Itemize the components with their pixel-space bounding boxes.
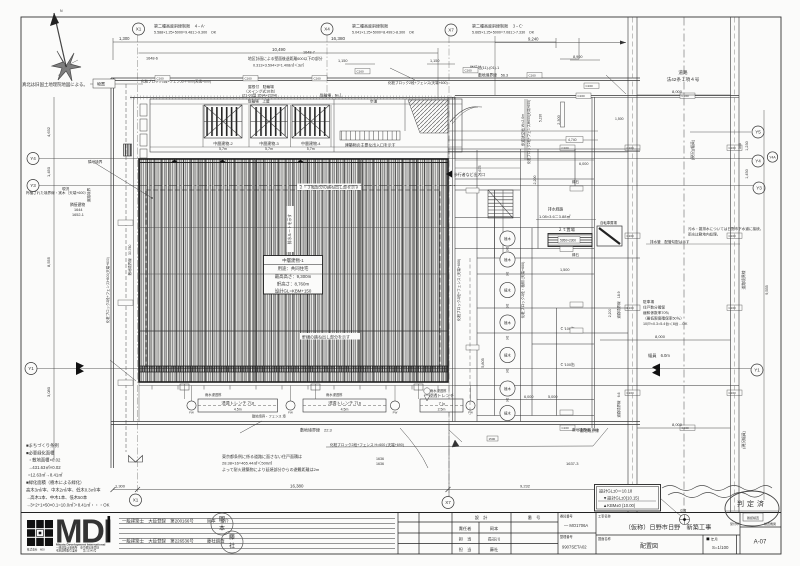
svg-text:排水ルートを示す: 排水ルートを示す (287, 214, 292, 245)
road dim bottom (637, 427, 731, 429)
svg-text:1,150: 1,150 (338, 59, 348, 63)
main building 1 outline and hatch (139, 159, 448, 382)
svg-text:雨水浸透桝: 雨水浸透桝 (205, 392, 222, 397)
stream wavy lines (662, 486, 772, 498)
svg-text:植木: 植木 (504, 411, 511, 416)
grid line Y1 (37, 368, 751, 370)
svg-text:→3+2+1×50×0.1=10.0㎡＞8.41㎡・・・OK: →3+2+1×50×0.1=10.0㎡＞8.41㎡・・・OK (26, 502, 110, 508)
svg-text:道路境界線 18.9: 道路境界線 18.9 (616, 291, 621, 318)
svg-text:植木: 植木 (504, 236, 511, 241)
svg-text:縁石: 縁石 (572, 252, 580, 257)
svg-text:道路境界線: 道路境界線 (741, 270, 746, 289)
entrance steps ladder (340, 131, 400, 140)
svg-text:C160: C160 (729, 234, 737, 238)
svg-text:歩道: 歩道 (370, 99, 378, 104)
svg-text:敷地境界線: 敷地境界線 (580, 428, 599, 433)
svg-text:第二種高度斜線制限 ４−Ａ’: 第二種高度斜線制限 ４−Ａ’ (154, 23, 205, 29)
svg-text:用途：共同住宅: 用途：共同住宅 (278, 265, 309, 272)
svg-text:化粧ブロック2段+フェンスH600(天端+600): 化粧ブロック2段+フェンスH600(天端+600) (526, 100, 531, 164)
trench manhole circles (187, 401, 196, 415)
svg-text:▼設計GL±0(10.15): ▼設計GL±0(10.15) (603, 495, 640, 502)
svg-text:4,740: 4,740 (568, 138, 577, 142)
benchmark leader (660, 498, 681, 516)
svg-text:中層建物-2: 中層建物-2 (213, 140, 233, 146)
grid line X7 over court (448, 97, 450, 424)
svg-text:藤社: 藤社 (490, 546, 498, 553)
svg-text:4,632: 4,632 (46, 126, 51, 137)
svg-text:(現況)(幅員): (現況)(幅員) (690, 139, 695, 160)
south site boundary double line (111, 422, 640, 425)
grid line Y5 (right) (690, 131, 751, 133)
svg-text:縁石: 縁石 (572, 179, 580, 184)
title table grid (398, 513, 781, 555)
svg-text:２・３階部分の跳ね出し部を示す: ２・３階部分の跳ね出し部を示す (299, 184, 359, 190)
svg-text:■必要緑化面積: ■必要緑化面積 (26, 450, 55, 457)
svg-text:植木: 植木 (504, 320, 511, 325)
svg-text:委託番号: 委託番号 (560, 514, 573, 519)
svg-text:4,675: 4,675 (478, 166, 482, 175)
matchline flag right (652, 364, 660, 377)
svg-text:化粧ブロック2段・植栩 (天端+600): 化粧ブロック2段・植栩 (天端+600) (520, 262, 525, 319)
svg-text:（最低限度確保率50％）: （最低限度確保率50％） (643, 316, 684, 321)
svg-text:1648-7: 1648-7 (303, 51, 315, 55)
car turning arc (450, 107, 478, 122)
road centerline (683, 18, 685, 513)
svg-text:（仮称）日野市日野 新築工事: （仮称）日野市日野 新築工事 (625, 524, 712, 532)
svg-text:敵地境界・フェンス 境: 敵地境界・フェンス 境 (252, 414, 287, 419)
hedge line with ticks (north) (130, 97, 455, 99)
svg-text:6,000: 6,000 (579, 162, 589, 166)
svg-text:S=1/100: S=1/100 (712, 545, 729, 550)
svg-text:駐輪場 №１: 駐輪場 №１ (320, 93, 342, 98)
bicycle parking enclosure (150, 99, 462, 152)
svg-text:道路境界線 6.6: 道路境界線 6.6 (616, 392, 621, 417)
right court room dims (481, 115, 589, 399)
north-east boundary segment (455, 95, 739, 97)
title table header texts (459, 514, 541, 553)
svg-text:500: 500 (738, 143, 742, 149)
planter boxes west edge (140, 104, 147, 158)
svg-text:5,7m: 5,7m (219, 147, 227, 151)
svg-text:中層建物-1: 中層建物-1 (282, 257, 304, 264)
north-east boundary corner details (390, 38, 626, 94)
road west edge lines (628, 18, 637, 513)
svg-text:第二種高度斜線制限 ３−Ｃ’: 第二種高度斜線制限 ３−Ｃ’ (472, 23, 523, 29)
svg-text:確認検査: 確認検査 (747, 515, 759, 520)
svg-text:屋根付 駐輪場: 屋根付 駐輪場 (248, 84, 274, 89)
svg-text:岡: 岡 (219, 516, 225, 523)
svg-text:X7: X7 (448, 28, 454, 33)
svg-text:社: 社 (229, 542, 235, 550)
entrance slope hatch (408, 100, 448, 133)
svg-text:東京都条例に係る道路に面さない住戸面積は: 東京都条例に係る道路に面さない住戸面積は (222, 453, 302, 459)
storage shed box (93, 79, 115, 88)
upper cantilever dashed outline (146, 190, 440, 367)
left vertical dimension line (53, 97, 55, 460)
matchline flag left (76, 362, 84, 375)
svg-text:5,7m: 5,7m (307, 147, 315, 151)
grid bubble X7 bottom (442, 497, 454, 509)
svg-text:化粧ブロック2段+フェンスH=600(天端+600): 化粧ブロック2段+フェンスH=600(天端+600) (141, 79, 211, 84)
svg-text:8,000: 8,000 (672, 422, 683, 427)
road width dim top (637, 94, 731, 96)
building main label box (264, 256, 323, 295)
svg-text:敷地境界線 30.780: 敷地境界線 30.780 (127, 245, 132, 276)
svg-text:→431.63㎡×0.02: →431.63㎡×0.02 (28, 464, 61, 470)
svg-text:8,000: 8,000 (655, 334, 666, 339)
svg-text:第二種高度斜線制限: 第二種高度斜線制限 (352, 23, 388, 29)
east court horizontal walls (448, 149, 739, 416)
svg-text:1500: 1500 (489, 437, 496, 441)
svg-text:幅員 6.0m: 幅員 6.0m (648, 352, 670, 359)
svg-text:10,490: 10,490 (272, 47, 286, 52)
svg-text:本: 本 (219, 524, 225, 532)
svg-text:C160: C160 (586, 84, 594, 88)
svg-text:排水経路: 排水経路 (548, 207, 563, 212)
road width dim middle (600, 339, 731, 341)
dashed court divider (469, 258, 471, 415)
benchmark datum box (595, 485, 661, 512)
svg-text:3,080: 3,080 (46, 386, 51, 397)
svg-text:住戸数分確保: 住戸数分確保 (643, 305, 665, 310)
grid bubble Y4 left (27, 153, 39, 165)
svg-text:A-07: A-07 (754, 540, 767, 546)
svg-text:真北は旧国土地理院地図による。: 真北は旧国土地理院地図による。 (22, 81, 88, 88)
outdoor stair (488, 190, 513, 218)
svg-text:責任者: 責任者 (459, 525, 472, 532)
svg-text:2,200: 2,200 (608, 309, 612, 318)
leader lines lower-left (110, 360, 262, 433)
svg-text:1,500: 1,500 (615, 117, 624, 121)
boundary tag boxes (118, 68, 742, 491)
right margin vertical dim line (763, 110, 765, 500)
grid line X4 (326, 35, 328, 97)
svg-text:化粧ブロック2段+フェンス (天端+600): 化粧ブロック2段+フェンス (天端+600) (456, 259, 461, 321)
svg-text:駐輪場 上屋: 駐輪場 上屋 (248, 99, 270, 104)
svg-text:5.588×1.25+5000=9.481＞9.300 OK: 5.588×1.25+5000=9.481＞9.300 OK (154, 31, 217, 35)
svg-text:長谷川: 長谷川 (488, 536, 501, 543)
svg-text:8,555: 8,555 (46, 256, 51, 267)
grid bubble X1 top (133, 23, 145, 35)
svg-text:植木: 植木 (504, 288, 511, 293)
svg-text:X7: X7 (445, 500, 451, 505)
svg-text:判定済: 判定済 (737, 499, 767, 508)
svg-text:1636: 1636 (376, 462, 384, 466)
svg-text:― MO1706A: ― MO1706A (564, 523, 588, 528)
svg-text:軒樋の跳ね出し部分を示す: 軒樋の跳ね出し部分を示す (302, 334, 350, 340)
bicycle rack bay 2 (204, 105, 242, 138)
grid bubble Y3 right (753, 182, 765, 194)
bay separator lines (203, 105, 331, 147)
west parallel offset line (125, 84, 127, 452)
svg-text:1,450: 1,450 (745, 169, 749, 179)
svg-text:C160: C160 (578, 94, 586, 98)
svg-text:C160: C160 (157, 77, 165, 81)
hanko stamp 1 (211, 513, 233, 535)
svg-text:C160: C160 (627, 391, 635, 395)
downpipe small boxes between building and trench (180, 384, 423, 390)
svg-text:2,200: 2,200 (533, 176, 537, 185)
vent marks on top edge (171, 160, 178, 163)
svg-text:受付印: 受付印 (730, 521, 739, 526)
sub-base line below building (139, 385, 455, 387)
svg-text:隣接建物: 隣接建物 (70, 202, 85, 207)
road label (667, 69, 700, 83)
MDI logo checker (27, 520, 53, 546)
svg-text:1.08×3.6＝3.88㎡: 1.08×3.6＝3.88㎡ (539, 213, 570, 219)
svg-text:5,000: 5,000 (548, 395, 558, 399)
eaves note on hatch (300, 333, 360, 340)
title block top line (21, 512, 781, 514)
svg-text:年月: 年月 (711, 537, 718, 542)
svg-text:設計GL=KBM+150: 設計GL=KBM+150 (275, 288, 312, 295)
svg-text:配置図: 配置図 (640, 543, 658, 550)
svg-text:9,555: 9,555 (765, 285, 769, 295)
svg-text:浸透トレンチ.7㏑: 浸透トレンチ.7㏑ (328, 400, 361, 407)
svg-text:植木: 植木 (504, 353, 511, 358)
road east edge lines (731, 18, 740, 513)
svg-text:番 号: 番 号 (528, 514, 541, 521)
infiltration trench box 3 (420, 392, 463, 412)
svg-text:担 当: 担 当 (459, 536, 472, 543)
svg-text:化粧ブロック2段+フェンスH600(天端+600): 化粧ブロック2段+フェンスH600(天端+600) (105, 257, 110, 323)
grid bubble Y3 left (27, 180, 39, 192)
svg-text:4.5m: 4.5m (234, 408, 242, 412)
svg-text:FW: FW (288, 411, 293, 415)
svg-text:軒高さ：8,760m: 軒高さ：8,760m (277, 281, 310, 288)
west site boundary double line (111, 78, 114, 468)
grid bubble X1 bottom (130, 494, 142, 506)
fire code note (222, 453, 320, 472)
svg-text:=12.63㎡→8.41㎡: =12.63㎡→8.41㎡ (28, 472, 63, 478)
svg-text:FW: FW (189, 411, 194, 415)
grid line X7 (448, 36, 450, 496)
svg-text:よって耐火建築物により延焼部分からの避難距離は2m: よって耐火建築物により延焼部分からの避難距離は2m (222, 466, 320, 472)
tree planting circles column (500, 231, 515, 246)
svg-text:0.313×3.594×3=1.408㎡＜3㎡: 0.313×3.594×3=1.408㎡＜3㎡ (253, 63, 304, 68)
svg-text:一級建築士 大臣登録 第226536号 藤社調査: 一級建築士 大臣登録 第226536号 藤社調査 (122, 538, 225, 545)
svg-text:16,380: 16,380 (290, 484, 304, 489)
small shrub labels between trees (506, 246, 510, 402)
grid line Y1 over hatch (139, 368, 448, 370)
svg-text:(21-03型 3594×2204): (21-03型 3594×2204) (242, 93, 277, 98)
svg-text:1644: 1644 (74, 208, 82, 212)
svg-text:(現況幅員): (現況幅員) (741, 430, 746, 448)
building bottom dark band (139, 366, 448, 372)
machizukuri ordinance notes (26, 442, 110, 508)
garbage yard hatched box (548, 234, 592, 247)
svg-text:排水管 配管勾配は示す: 排水管 配管勾配は示す (650, 239, 690, 244)
svg-text:C160: C160 (682, 94, 690, 98)
grid bubble Y5 right (752, 126, 764, 138)
svg-text:Y4A: Y4A (769, 156, 776, 160)
svg-text:建築物の主要な出入口を示す: 建築物の主要な出入口を示す (345, 143, 396, 148)
svg-text:浸透トレンチ: 浸透トレンチ (429, 392, 454, 399)
svg-text:藤: 藤 (229, 533, 235, 541)
right vertical dims rotated (690, 139, 769, 449)
parking calc note (643, 299, 688, 326)
svg-text:株式会社 MDI: 株式会社 MDI (27, 548, 45, 552)
svg-text:C160: C160 (627, 234, 635, 238)
svg-text:法42条１項４号: 法42条１項４号 (667, 76, 700, 83)
svg-text:4.5m: 4.5m (341, 408, 349, 412)
svg-text:C160: C160 (729, 146, 737, 150)
approach lines (334, 97, 455, 159)
infiltration trench box 1 (198, 399, 278, 412)
svg-text:5.665×1.25+5000=7.081＞7.330 OK: 5.665×1.25+5000=7.081＞7.330 OK (472, 31, 535, 35)
approval ellipse stamp (725, 491, 779, 526)
canopy bike shed note box (242, 84, 342, 98)
svg-text:化粧ブロック2段+フェンス H=600 (天端+690): 化粧ブロック2段+フェンス H=600 (天端+690) (330, 442, 404, 447)
svg-text:FW: FW (468, 411, 473, 415)
upper court narrow box (561, 102, 565, 127)
svg-text:道路: 道路 (678, 69, 688, 76)
floor line across hatch 3 (139, 330, 448, 332)
svg-text:高木3㎡/本、中木2㎡/本、低木0.3㎡/本: 高木3㎡/本、中木2㎡/本、低木0.3㎡/本 (26, 487, 101, 494)
svg-text:植木: 植木 (504, 257, 511, 262)
grid line X1 (137, 35, 139, 494)
svg-text:FW: FW (393, 411, 398, 415)
svg-text:1648-6: 1648-6 (146, 57, 158, 61)
svg-text:Ｃ’100缶: Ｃ’100缶 (560, 362, 575, 367)
svg-text:→高木1本、中木1本、低木50本: →高木1本、中木1本、低木50本 (26, 494, 88, 501)
water meter circles lower (424, 388, 430, 401)
svg-text:5,190: 5,190 (539, 114, 543, 122)
road west edge dashed companion (632, 18, 634, 513)
svg-text:検査機関: 検査機関 (764, 521, 776, 526)
svg-text:C160: C160 (245, 77, 253, 81)
svg-text:■まちづくり条例: ■まちづくり条例 (26, 442, 59, 449)
svg-text:駐車場: 駐車場 (643, 299, 654, 304)
small boxed tags right court (466, 186, 583, 415)
corridor double lines (495, 190, 504, 258)
grid line Y4 (39, 158, 752, 160)
svg-text:X4: X4 (324, 27, 330, 32)
svg-text:Y1: Y1 (754, 368, 760, 373)
svg-text:浸透トレンチ.7㏑: 浸透トレンチ.7㏑ (221, 400, 254, 407)
top dimension row 10,490 (139, 52, 439, 54)
floor line across hatch 2 (139, 273, 448, 275)
bike box with diagonal (597, 220, 622, 246)
svg-text:枵植された境界線・実木（天端+600）: 枵植された境界線・実木（天端+600） (26, 190, 88, 195)
svg-text:敷地境界線 22.3: 敷地境界線 22.3 (300, 427, 333, 433)
svg-text:2.5m: 2.5m (438, 408, 446, 412)
scale cell (707, 538, 710, 541)
svg-text:雨水浸透桝: 雨水浸透桝 (430, 388, 447, 393)
svg-text:植木: 植木 (504, 386, 511, 391)
bowtie survey marker (129, 456, 143, 463)
bicycle rack bay 4 (292, 105, 330, 138)
north compass arrow (50, 9, 81, 81)
court upper horizontal ticks (455, 160, 594, 168)
svg-text:1,300: 1,300 (119, 36, 130, 41)
svg-text:6,000: 6,000 (524, 395, 534, 399)
svg-text:２ｔ置場: ２ｔ置場 (558, 226, 576, 233)
svg-text:C160: C160 (627, 146, 635, 150)
svg-text:化粧ブロック2段+フェンス(天端+600): 化粧ブロック2段+フェンス(天端+600) (388, 80, 448, 85)
bottom dimension 9,232 (448, 489, 598, 491)
svg-text:歩道状空地 W=2.0m: 歩道状空地 W=2.0m (520, 114, 525, 146)
svg-text:担 当: 担 当 (459, 546, 472, 553)
grid bubble Y4 right (752, 155, 764, 167)
grid bubble Y1 left (25, 363, 37, 375)
fence post ticks south of building (152, 386, 438, 390)
svg-text:C160: C160 (729, 306, 737, 310)
svg-text:1637-3: 1637-3 (566, 461, 579, 466)
svg-text:Y1: Y1 (28, 366, 34, 371)
svg-text:敷地境界線 56.3: 敷地境界線 56.3 (478, 73, 508, 78)
svg-text:雨水は敷地内処理。: 雨水は敷地内処理。 (688, 232, 720, 237)
top dimension row 16,380 (113, 38, 556, 60)
svg-text:X1: X1 (136, 27, 142, 32)
svg-text:C160: C160 (465, 69, 473, 73)
signature rule lines (119, 519, 395, 549)
svg-text:Y4: Y4 (30, 156, 36, 161)
rotated drainage route label (287, 206, 294, 252)
east court vertical walls (453, 97, 595, 428)
svg-text:・敷地面積×0.02: ・敷地面積×0.02 (28, 457, 61, 464)
grid bubble Y4A right (767, 152, 777, 162)
grid line Y3 over hatch (139, 185, 455, 187)
svg-text:9907SETA02: 9907SETA02 (562, 545, 587, 550)
svg-text:Y3: Y3 (756, 186, 762, 191)
upper court dim lines (448, 130, 598, 132)
svg-text:5,805: 5,805 (481, 358, 485, 368)
svg-text:７㏑: ７㏑ (438, 401, 446, 406)
svg-text:▲KBM±0 (10.00): ▲KBM±0 (10.00) (603, 503, 636, 508)
bottom dimension 16,380 (138, 489, 449, 491)
svg-text:図面名称: 図面名称 (598, 536, 612, 541)
svg-text:1,450: 1,450 (46, 166, 51, 177)
svg-text:自転車置場: 自転車置場 (600, 220, 618, 225)
svg-text:物置: 物置 (97, 81, 105, 87)
floor line across hatch 1 (139, 227, 448, 229)
svg-text:設計GL±0＝10.18: 設計GL±0＝10.18 (599, 488, 633, 495)
svg-text:C160: C160 (562, 146, 570, 150)
svg-text:5.041×1.25+5000=8.499＞8.300 OK: 5.041×1.25+5000=8.499＞8.300 OK (352, 31, 415, 35)
svg-text:Y3: Y3 (30, 183, 36, 188)
top dimension row 9,240 (495, 42, 626, 44)
svg-text:5950×2300: 5950×2300 (560, 239, 576, 243)
svg-text:汚水・雑排水については日野市下水道に接続。: 汚水・雑排水については日野市下水道に接続。 (688, 226, 763, 231)
svg-text:5,7m: 5,7m (265, 147, 273, 151)
grid bubble Y1 right (751, 364, 763, 376)
svg-text:8,000: 8,000 (672, 89, 683, 94)
svg-text:地区計画による壁面後退距離600以下の部分: 地区計画による壁面後退距離600以下の部分 (248, 56, 323, 61)
svg-text:岡本: 岡本 (490, 525, 499, 532)
svg-text:1652-1: 1652-1 (72, 213, 84, 217)
downpipe connectors (139, 382, 471, 422)
north site boundary double line (111, 78, 640, 81)
svg-text:28.38×16=465.44㎡＜500㎡: 28.38×16=465.44㎡＜500㎡ (222, 460, 272, 466)
svg-text:整理番号: 整理番号 (560, 534, 573, 539)
svg-text:C160: C160 (562, 426, 570, 430)
building top dark band (139, 162, 448, 164)
hanko stamp 2 (221, 531, 243, 553)
svg-text:■緑化面積（樹木による緑化）: ■緑化面積（樹木による緑化） (26, 479, 84, 486)
svg-text:Y4: Y4 (755, 159, 761, 164)
svg-text:工事名称: 工事名称 (598, 514, 612, 519)
grid line Y3 (39, 185, 753, 187)
svg-text:8,900: 8,900 (573, 55, 583, 59)
svg-text:C160: C160 (729, 391, 737, 395)
svg-text:設 計: 設 計 (475, 514, 488, 521)
svg-text:雨水浸透桝: 雨水浸透桝 (326, 392, 343, 397)
small dark structure at west edge (124, 144, 132, 156)
svg-text:中層建物-4: 中層建物-4 (301, 140, 321, 146)
svg-text:C160: C160 (314, 77, 322, 81)
svg-text:宅地建物取引業者 第 12345号: 宅地建物取引業者 第 12345号 (56, 549, 97, 553)
